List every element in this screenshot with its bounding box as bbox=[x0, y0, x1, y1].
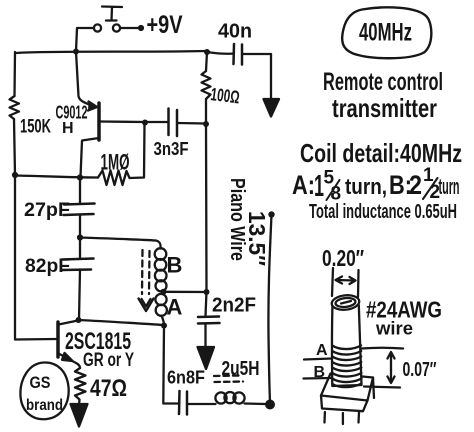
svg-text:GS: GS bbox=[30, 373, 51, 392]
coil form cylinder body bbox=[332, 303, 362, 386]
wire: coil bottom to 6n8F bbox=[163, 326, 179, 404]
dim 0.07 ref lines bbox=[361, 348, 403, 388]
GS brand oval bbox=[20, 362, 68, 419]
svg-text:GR or Y: GR or Y bbox=[83, 350, 134, 371]
node: bias junction left bbox=[12, 172, 18, 178]
capacitor 40n bbox=[234, 44, 272, 65]
node: collector junction bbox=[76, 317, 82, 323]
node: coil tap bbox=[161, 289, 167, 295]
svg-text:6n8F: 6n8F bbox=[167, 368, 205, 388]
antenna arrow bbox=[264, 99, 280, 117]
transistor Q2 2SC1815 (NPN) bbox=[58, 321, 80, 369]
svg-text:brand: brand bbox=[26, 397, 63, 414]
resistor 100R bbox=[202, 71, 211, 99]
label turns bbox=[292, 165, 460, 205]
node: rail right junction bbox=[204, 49, 210, 55]
ground arrow (2n2F) bbox=[198, 347, 215, 369]
40MHz bubble bbox=[342, 7, 431, 58]
capacitor 3n3F bbox=[169, 109, 206, 137]
svg-text:40n: 40n bbox=[218, 21, 252, 43]
resistor 47R bbox=[75, 368, 86, 405]
antenna stub wire bbox=[270, 54, 272, 100]
svg-text:Remote control: Remote control bbox=[323, 68, 443, 96]
wire: right column middle bbox=[206, 99, 207, 316]
tuning slug dashed arrow bbox=[139, 250, 154, 311]
wire: left branch lower bbox=[14, 119, 57, 340]
svg-text:B: B bbox=[167, 253, 183, 278]
coil form base box legs bbox=[325, 412, 360, 424]
node: 27pF/coil junction bbox=[77, 234, 83, 240]
svg-text:A: A bbox=[316, 342, 328, 359]
svg-text:2: 2 bbox=[409, 170, 422, 200]
svg-text:27pF: 27pF bbox=[24, 200, 70, 221]
wire: antenna feed down bbox=[268, 215, 271, 404]
ground arrow (emitter) bbox=[71, 404, 88, 427]
coil form base box top face bbox=[321, 374, 373, 401]
windings bbox=[332, 346, 361, 388]
svg-text:1: 1 bbox=[314, 168, 324, 203]
svg-text:H: H bbox=[62, 120, 74, 137]
transistor Q1 C9012 (PNP) bbox=[76, 52, 144, 177]
switch S1 bbox=[94, 7, 140, 32]
capacitor 6n8F bbox=[179, 391, 216, 415]
node: base junction bbox=[142, 120, 148, 126]
capacitor 2n2F bbox=[198, 317, 220, 349]
svg-text:150K: 150K bbox=[20, 117, 51, 138]
svg-text:A:: A: bbox=[292, 170, 315, 200]
svg-text:13.5″: 13.5″ bbox=[244, 211, 270, 266]
node: rail/switch junction bbox=[73, 49, 79, 55]
svg-text:turn: turn bbox=[439, 174, 460, 199]
node: antenna feed top bbox=[268, 211, 274, 217]
svg-text:0.20″: 0.20″ bbox=[322, 245, 364, 271]
svg-text:wire: wire bbox=[375, 319, 413, 339]
svg-text:100Ω: 100Ω bbox=[210, 84, 241, 107]
core dashes above 2u5H bbox=[214, 376, 243, 383]
dim 0.07 arrow bbox=[388, 352, 395, 383]
svg-text:Coil detail:40MHz: Coil detail:40MHz bbox=[300, 138, 462, 168]
svg-text:3n3F: 3n3F bbox=[154, 139, 189, 159]
inductor L1 loops A bbox=[155, 294, 167, 325]
wire: rail to 40n bbox=[207, 52, 234, 54]
node: +9V stub end bbox=[138, 25, 144, 31]
svg-text:B: B bbox=[314, 364, 326, 381]
coil form base box front face bbox=[321, 378, 374, 412]
svg-text:1MØ: 1MØ bbox=[101, 150, 130, 175]
capacitor 82pF bbox=[62, 238, 94, 320]
svg-text:transmitter: transmitter bbox=[332, 93, 437, 123]
wire: left branch bbox=[13, 52, 16, 96]
dim 0.20 ticks and arrow bbox=[332, 268, 359, 297]
node: coil bottom bbox=[161, 323, 167, 329]
pointer line for A bbox=[304, 359, 332, 360]
svg-text:47Ω: 47Ω bbox=[90, 375, 127, 402]
svg-text:2n2F: 2n2F bbox=[212, 295, 256, 317]
svg-text:A: A bbox=[167, 295, 183, 320]
pointer line for B bbox=[304, 377, 332, 380]
svg-text:2u5H: 2u5H bbox=[222, 358, 260, 380]
wire: switch branch riser bbox=[76, 28, 94, 51]
wire: top +9V rail bbox=[15, 51, 207, 53]
svg-text:40MHz: 40MHz bbox=[359, 19, 412, 47]
resistor 1M0 bbox=[98, 124, 145, 185]
wire: right column upper bbox=[206, 52, 207, 71]
wire: base to 3n3F bbox=[145, 121, 168, 123]
wire: tap line bbox=[164, 291, 207, 294]
inductor 2u5H bbox=[215, 392, 265, 404]
svg-text:82pF: 82pF bbox=[25, 256, 70, 277]
node: collector/bias junction bbox=[77, 174, 83, 180]
node: output junction (big dot) bbox=[265, 400, 275, 410]
inductor L1 tapped coil : top lead bbox=[80, 238, 161, 249]
svg-text:Total inductance 0.65uH: Total inductance 0.65uH bbox=[309, 201, 457, 223]
svg-text:turn,: turn, bbox=[345, 174, 387, 199]
resistor 150K bbox=[10, 96, 20, 119]
capacitor 27pF bbox=[64, 178, 95, 238]
wire: bias row bbox=[15, 176, 98, 178]
wire: collector to coil bottom bbox=[79, 320, 164, 325]
inductor L1 loops B bbox=[155, 248, 167, 291]
coil form top ellipse bbox=[331, 294, 360, 311]
node: 3n3F/right-column junction bbox=[203, 121, 209, 127]
svg-text:0.07″: 0.07″ bbox=[403, 359, 437, 381]
node: tap junction right bbox=[204, 289, 210, 295]
svg-text:+9V: +9V bbox=[147, 11, 183, 39]
